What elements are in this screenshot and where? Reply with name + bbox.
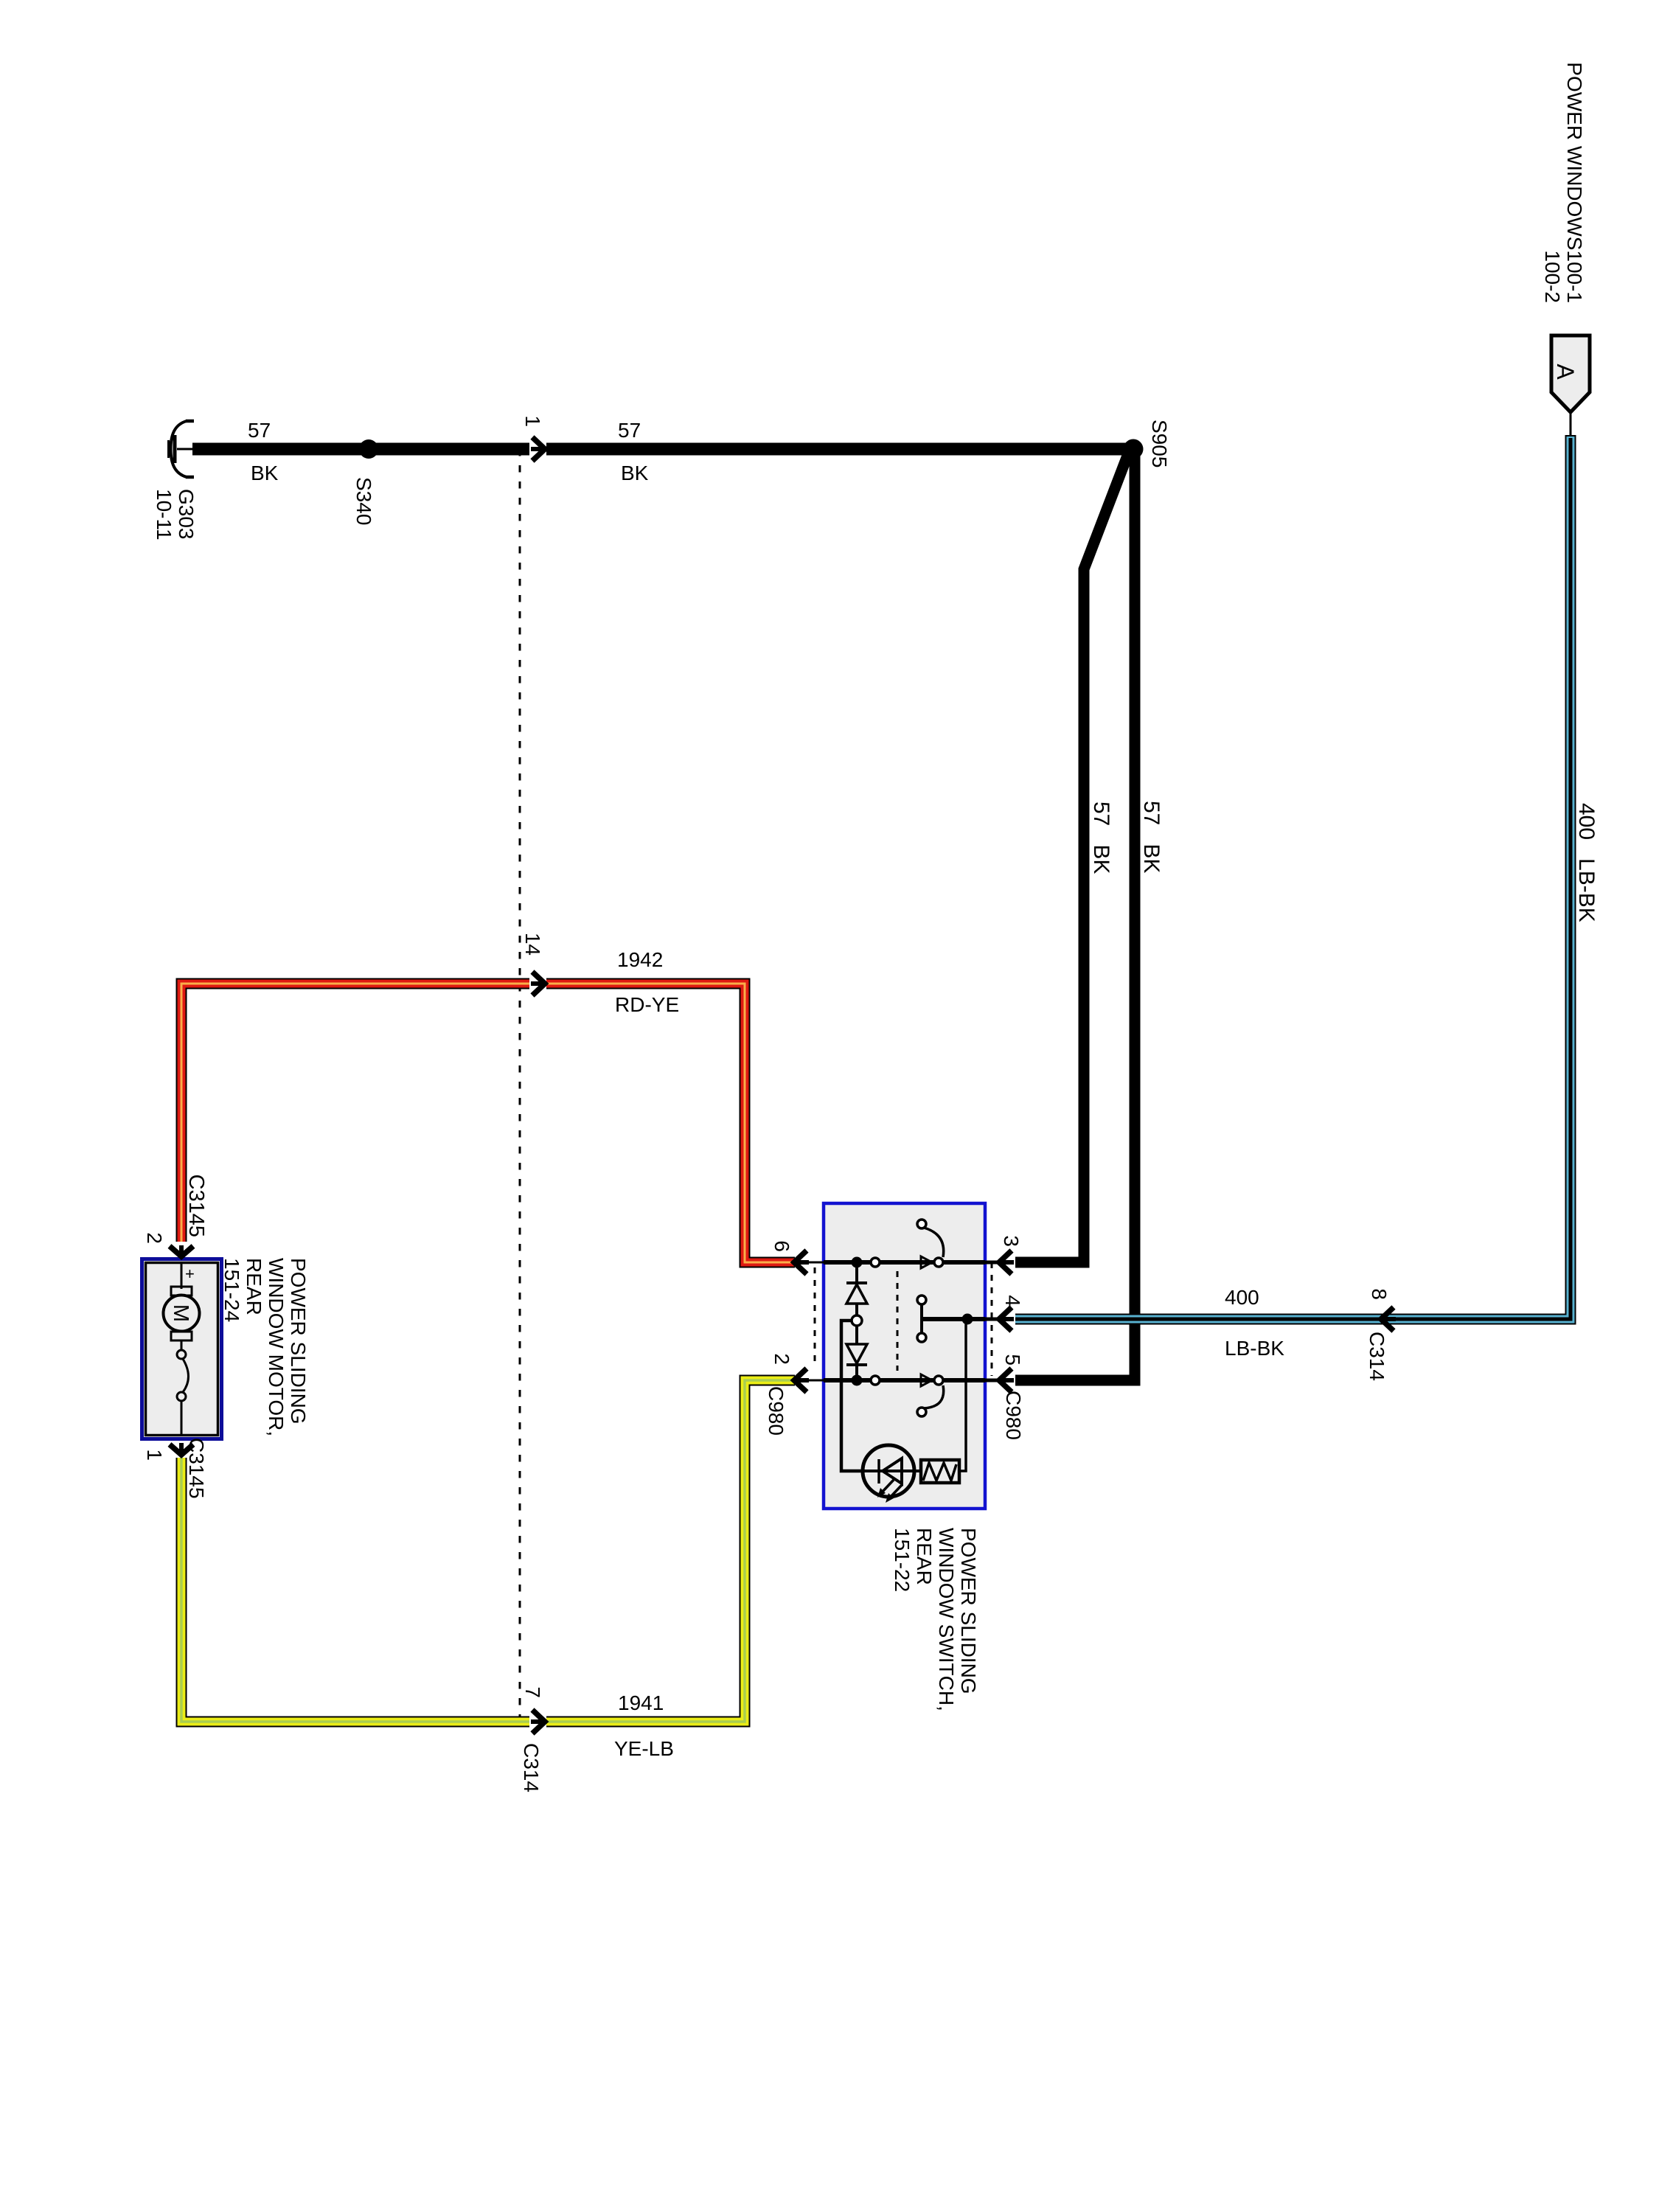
svg-text:4: 4 [1001, 1295, 1024, 1307]
wire: switch internal pin 4 row [922, 1317, 985, 1321]
svg-text:POWER SLIDING: POWER SLIDING [957, 1528, 980, 1694]
ground G303 [169, 421, 197, 477]
switch S1: POWER SLIDING WINDOW SWITCH, REAR box [824, 1203, 985, 1509]
connector C314 pin 8 arrow on 400 LB-BK wire [1381, 1307, 1396, 1331]
svg-text:C980: C980 [1002, 1391, 1025, 1440]
junction: diode branch on pin 5 row [852, 1375, 863, 1386]
switch common actuator contact (upper) [917, 1295, 926, 1304]
splice S340 [359, 439, 378, 459]
switch lever arc (bottom) [924, 1385, 944, 1408]
contact circle on pin 3 row [934, 1258, 943, 1267]
contact triangle on pin 5 row [921, 1374, 932, 1386]
resistor R1 (lamp dropping resistor) [921, 1460, 959, 1483]
dashed mechanical coupling line [897, 1271, 899, 1371]
splice S905 [1124, 439, 1144, 459]
motor brush (bottom) [171, 1332, 192, 1340]
switch common actuator contact (lower) [917, 1333, 926, 1342]
wire: 57 BK from S905 (diagonal) down to switch pin 3 [1015, 456, 1127, 1262]
svg-text:REAR: REAR [913, 1528, 936, 1585]
svg-text:151-24: 151-24 [220, 1258, 243, 1322]
junction: diode branch on pin 3 row [852, 1257, 863, 1268]
svg-text:1941: 1941 [618, 1691, 664, 1714]
motor internal circuit breaker contact (top) [177, 1350, 186, 1359]
svg-text:BK: BK [621, 462, 649, 484]
label: switch name POWER SLIDING WINDOW SWITCH, REAR 151-22 [891, 1528, 980, 1711]
contact triangle on pin 3 row [921, 1256, 932, 1268]
svg-text:C314: C314 [1366, 1332, 1388, 1381]
svg-text:M: M [169, 1304, 192, 1322]
svg-text:RD-YE: RD-YE [615, 993, 679, 1016]
svg-text:57 BK: 57 BK [1139, 801, 1164, 873]
svg-text:+: + [185, 1265, 195, 1283]
wire: lamp branch from diode junction to LED [841, 1321, 864, 1471]
terminal circle on pin 3 row [871, 1258, 880, 1267]
contact circle on pin 5 row [934, 1376, 943, 1385]
svg-text:1: 1 [521, 415, 544, 427]
diode D1 (pin 3 row to junction node) [846, 1262, 867, 1315]
wire: switch internal pin 3 row [824, 1260, 985, 1265]
switch lever pivot (bottom) [917, 1408, 926, 1416]
svg-text:WINDOW SWITCH,: WINDOW SWITCH, [935, 1528, 958, 1711]
switch lever arc (top) [924, 1228, 944, 1257]
LED DS1 (illumination lamp) [863, 1445, 914, 1503]
svg-text:6: 6 [771, 1240, 793, 1252]
motor M1: POWER SLIDING WINDOW MOTOR, REAR box [142, 1259, 222, 1439]
wire: circuit 1942 RD-YE from motor pin 2 to switch pin 6 [181, 984, 795, 1262]
wire: 57 BK from S905 down to switch pin 5 [1015, 451, 1135, 1380]
svg-text:WINDOW MOTOR,: WINDOW MOTOR, [265, 1258, 288, 1436]
connector C980 pin 5 arrow [985, 1368, 1014, 1392]
svg-text:151-22: 151-22 [891, 1528, 914, 1592]
svg-text:400: 400 [1225, 1286, 1259, 1309]
terminal circle on pin 5 row [871, 1376, 880, 1385]
wire: motor internal lead to pin 1 [181, 1401, 183, 1434]
svg-text:YE-LB: YE-LB [614, 1737, 674, 1760]
connector C3145 pin 2 arrow at motor [170, 1245, 193, 1256]
svg-text:2: 2 [143, 1232, 166, 1244]
node A: off-page connector arrow [1551, 335, 1590, 435]
svg-text:C3145: C3145 [184, 1175, 208, 1237]
svg-text:5: 5 [1001, 1354, 1024, 1366]
label: motor name POWER SLIDING WINDOW MOTOR, REAR 151-24 [220, 1258, 310, 1436]
connector C980 pin 3 arrow [985, 1251, 1014, 1274]
svg-text:100-2: 100-2 [1541, 250, 1564, 303]
switch lever pivot (top) [917, 1220, 926, 1228]
dashed connector line C980 (right side) [991, 1262, 993, 1376]
svg-text:POWER SLIDING: POWER SLIDING [287, 1258, 310, 1425]
connector C3145 pin 1 arrow at motor [170, 1443, 193, 1455]
svg-text:14: 14 [521, 933, 544, 956]
wire: circuit 400 LB-BK from connector A to switch pin 4 [1015, 435, 1571, 1319]
wire: circuit 57 BK from ground G303 to splice S905 [192, 443, 1126, 456]
diode D2 (junction node to pin 5 row) [846, 1326, 867, 1380]
svg-text:57: 57 [248, 419, 271, 442]
node: diode junction circle [852, 1315, 862, 1326]
svg-text:1: 1 [143, 1449, 166, 1461]
dashed connector line C980 (left side) [814, 1267, 816, 1363]
svg-text:3: 3 [1000, 1235, 1023, 1247]
svg-text:S905: S905 [1148, 420, 1171, 467]
svg-text:POWER WINDOWS100-1: POWER WINDOWS100-1 [1563, 62, 1586, 303]
svg-text:400 LB-BK: 400 LB-BK [1574, 803, 1599, 922]
connector C314 pin 14 arrow on 1942 wire [529, 972, 546, 995]
svg-text:C980: C980 [765, 1386, 787, 1436]
svg-text:57: 57 [618, 419, 641, 442]
motor brush (top) [171, 1287, 192, 1295]
svg-text:REAR: REAR [243, 1258, 265, 1315]
svg-text:1942: 1942 [617, 948, 663, 971]
wire: switch internal pin 5 row [824, 1378, 985, 1382]
connector C980 pin 2 arrow [794, 1368, 824, 1392]
svg-text:S340: S340 [352, 477, 375, 525]
junction: resistor branch on pin 4 row [962, 1314, 973, 1325]
motor M symbol [164, 1295, 200, 1332]
wire: motor internal lead from pin 2 [181, 1262, 183, 1289]
svg-text:8: 8 [1368, 1288, 1391, 1300]
svg-text:A: A [1552, 364, 1579, 380]
svg-text:G303: G303 [175, 489, 198, 540]
svg-text:7: 7 [521, 1686, 544, 1698]
connector C314 pin 1 arrow on 57 BK wire [529, 437, 546, 461]
svg-text:BK: BK [251, 462, 279, 484]
wire: circuit 1941 YE-LB from motor pin 1 to switch pin 2 [181, 1380, 795, 1722]
switch common actuator bar [920, 1304, 923, 1333]
svg-text:10-11: 10-11 [153, 489, 175, 540]
wire: resistor to pin 4 row [959, 1319, 966, 1471]
connector C980 pin 4 arrow [985, 1307, 1014, 1331]
svg-text:2: 2 [771, 1353, 793, 1365]
motor internal circuit breaker contact (bottom) [177, 1392, 186, 1401]
wire: motor internal lead to breaker [181, 1340, 183, 1350]
connector C314 pin 7 arrow on 1941 wire [529, 1710, 546, 1733]
svg-text:57 BK: 57 BK [1089, 801, 1113, 874]
svg-text:LB-BK: LB-BK [1225, 1337, 1284, 1360]
wire: dashed inline-connector line C314 (vertical) [519, 449, 521, 1722]
svg-text:C314: C314 [520, 1743, 543, 1792]
svg-text:C3145: C3145 [185, 1438, 208, 1499]
motor internal circuit breaker arc [183, 1359, 189, 1392]
connector C980 pin 6 arrow [794, 1251, 824, 1274]
